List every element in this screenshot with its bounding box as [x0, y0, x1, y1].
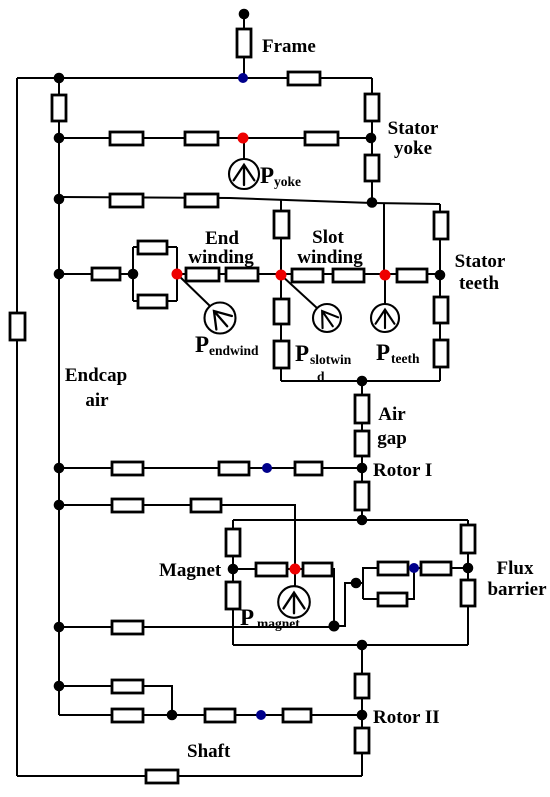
resistor: end-winding parallel lower: [138, 295, 167, 308]
node: stator yoke right: [366, 133, 377, 144]
resistor: rotor I line 2: [219, 462, 249, 475]
current source P_yoke: [229, 159, 259, 189]
wire: flux barrier branch vertical: [362, 567, 364, 599]
resistor: rotor I rail: [355, 482, 369, 510]
wire: P yoke stub: [243, 138, 245, 159]
svg-text:yoke: yoke: [274, 174, 301, 189]
node: stator teeth: [435, 270, 446, 281]
resistor: flux barrier right rail upper: [461, 525, 475, 553]
resistor: magnet left rail lower: [226, 582, 240, 609]
svg-text:yoke: yoke: [394, 138, 432, 159]
resistor: stator yoke line 2: [185, 132, 218, 145]
wire: rotor I horizontal line: [59, 467, 362, 469]
wire: stator yoke right rail: [371, 78, 373, 203]
resistor: frame-endcap (left inner rail): [52, 95, 66, 121]
svg-text:Air: Air: [378, 404, 406, 425]
wire: rotor II horizontal line: [59, 714, 362, 716]
resistor: shaft parallel upper: [112, 680, 143, 693]
node: frame-left rail junction: [54, 73, 65, 84]
wire: winding row main segment: [177, 273, 440, 275]
node: end winding (red): [172, 269, 183, 280]
node: rotor II: [357, 710, 368, 721]
wire: magnet box top line: [233, 519, 468, 521]
svg-text:P: P: [240, 605, 254, 630]
node: end winding left: [54, 269, 65, 280]
node: rotor I: [357, 463, 368, 474]
resistor: stator yoke rail lower: [365, 155, 379, 181]
wire: flux barrier right rail: [467, 520, 469, 645]
svg-text:winding: winding: [188, 247, 254, 268]
node: frame line (blue): [238, 73, 248, 83]
wire: air gap rail: [361, 381, 363, 520]
svg-text:winding: winding: [297, 247, 363, 268]
node: stator yoke mid (red): [238, 133, 249, 144]
wire: top frame horizontal line: [17, 77, 372, 79]
wire: P teeth stub: [384, 275, 386, 304]
node: rotor mid: [357, 640, 368, 651]
svg-text:P: P: [260, 163, 274, 188]
node: rotor top: [357, 515, 368, 526]
svg-text:teeth: teeth: [459, 273, 500, 294]
node: shaft parallel left: [54, 681, 65, 692]
resistor: stator teeth rail mid: [434, 297, 448, 323]
resistor: rotor I line 3: [295, 462, 322, 475]
wire: lower magnet horizontal line: [233, 644, 468, 646]
node: flux barrier left: [351, 578, 362, 589]
wire: left outer rail: [16, 78, 18, 776]
node: magnet-flux junction: [329, 621, 340, 632]
node: shaft parallel right: [167, 710, 178, 721]
node: rotor II line (blue): [256, 710, 266, 720]
svg-text:Flux: Flux: [497, 558, 534, 579]
svg-text:air: air: [85, 390, 109, 411]
wire: slot-box top horizontal line: [59, 197, 440, 204]
node: slot box top: [367, 197, 378, 208]
resistor: flux barrier right rail lower: [461, 580, 475, 606]
current source P_magnet: [278, 586, 310, 618]
wire: flux barrier left link: [334, 583, 363, 626]
node: slot winding left (red): [276, 270, 287, 281]
resistor: stator teeth rail lower: [434, 340, 448, 367]
resistor: flux barrier bottom branch: [378, 593, 407, 606]
wire: magnet row horizontal: [233, 569, 334, 626]
svg-text:Stator: Stator: [455, 251, 506, 272]
resistor: flux barrier top branch 2: [421, 562, 451, 575]
resistor: stator teeth rail upper: [434, 212, 448, 239]
node: rotor I line (blue): [262, 463, 272, 473]
svg-text:Slot: Slot: [312, 227, 344, 248]
node: endcap lower left: [54, 622, 65, 633]
svg-text:Rotor I: Rotor I: [373, 460, 432, 481]
svg-text:endwind: endwind: [209, 343, 259, 358]
node: endcap top left: [54, 194, 65, 205]
resistor: end winding link 1: [186, 268, 219, 281]
resistor: air gap lower: [355, 431, 369, 456]
svg-text:P: P: [295, 341, 309, 366]
resistor: shaft line: [146, 770, 178, 783]
wire: shaft parallel top branch: [59, 686, 172, 715]
wire: shaft bottom horizontal line: [17, 775, 362, 777]
wire: P slotwind diagonal lead: [281, 275, 317, 308]
resistor: end-winding parallel upper: [138, 241, 167, 254]
resistor: magnet row 2: [303, 563, 332, 576]
resistor: stator yoke line 3: [305, 132, 338, 145]
wire: endcap air horizontal line: [59, 626, 334, 628]
resistor: air gap upper: [355, 395, 369, 423]
resistor: shaft parallel lower: [112, 709, 143, 722]
resistor: slot winding link 1: [292, 269, 323, 282]
wire: frame pendant vertical: [243, 14, 245, 78]
resistor: slot winding link 2: [333, 269, 364, 282]
node: endcap mid left: [54, 500, 65, 511]
wire: slot box left rail: [280, 200, 282, 381]
resistor: stator yoke rail upper: [365, 94, 379, 121]
wire: magnet box left rail: [232, 520, 234, 645]
svg-text:magnet: magnet: [257, 616, 300, 631]
wire: left inner rail: [58, 78, 60, 715]
resistor: rotor II line 1: [205, 709, 235, 722]
resistor: magnet left rail upper: [226, 529, 240, 556]
node: slot winding right (red): [380, 270, 391, 281]
wire: second rotor line to magnet: [59, 505, 295, 569]
svg-text:P: P: [376, 340, 390, 365]
resistor: rotor II rail lower: [355, 728, 369, 753]
resistor: endcap-magnet line 1: [112, 499, 143, 512]
svg-text:Shaft: Shaft: [187, 741, 231, 762]
wire: slot box bottom line: [281, 380, 440, 382]
resistor: magnet row 1: [256, 563, 287, 576]
resistor: endcap line 2: [185, 194, 218, 207]
current source P_endwind: [205, 303, 236, 334]
wire: stator yoke horizontal line: [59, 137, 371, 139]
wire: flux barrier bottom branch: [363, 568, 414, 599]
wire: P magnet stub: [294, 569, 296, 587]
resistor: stator yoke line 1: [110, 132, 143, 145]
svg-text:End: End: [205, 228, 239, 249]
current source P_teeth: [371, 304, 399, 332]
resistor: slot box left rail lower: [274, 341, 289, 368]
resistor: rotor II rail upper: [355, 674, 369, 698]
node: stator yoke left: [54, 133, 65, 144]
wire: P endwind diagonal lead: [177, 274, 211, 307]
wire: end-winding row left segment: [59, 273, 133, 275]
svg-text:d: d: [317, 369, 325, 384]
wire: stator teeth right rail: [439, 204, 441, 381]
svg-text:Rotor II: Rotor II: [373, 707, 440, 728]
node: flux barrier (blue): [409, 563, 419, 573]
svg-text:barrier: barrier: [487, 579, 547, 600]
svg-text:slotwin: slotwin: [310, 352, 352, 367]
svg-text:Frame: Frame: [262, 36, 316, 57]
resistor: rotor II line 2: [283, 709, 311, 722]
node: end winding box left: [128, 269, 139, 280]
resistor: end winding link 2: [226, 268, 258, 281]
resistor: slot box left rail upper: [274, 211, 289, 238]
resistor: slot winding-stator teeth: [397, 269, 427, 282]
resistor: frame to ambient: [237, 29, 251, 57]
svg-text:teeth: teeth: [391, 351, 420, 366]
node: rotor I left: [54, 463, 65, 474]
resistor: endcap to end-winding: [92, 268, 120, 280]
svg-text:Stator: Stator: [388, 118, 439, 139]
node: flux barrier right: [463, 563, 474, 574]
wire: rotor II rail: [361, 645, 363, 776]
node: slot box bottom: [357, 376, 368, 387]
resistor: endcap line 1: [110, 194, 143, 207]
wire: vertical from top line to slot winding node: [383, 203, 385, 275]
node: magnet (red): [290, 564, 301, 575]
node: magnet left: [228, 564, 239, 575]
wire: end-winding parallel box: [133, 247, 177, 301]
current source P_slotwind: [313, 304, 341, 332]
resistor: endcap-magnet line 2: [191, 499, 221, 512]
resistor: slot box left rail mid: [274, 299, 289, 324]
resistor: flux barrier top branch 1: [378, 562, 408, 575]
svg-text:Endcap: Endcap: [65, 365, 127, 386]
resistor: frame-stator yoke (top line): [288, 72, 320, 85]
resistor: rotor I line 1: [112, 462, 143, 475]
svg-text:P: P: [195, 332, 209, 357]
svg-text:Magnet: Magnet: [159, 560, 222, 581]
node: frame top terminal: [239, 9, 250, 20]
svg-text:gap: gap: [377, 428, 407, 449]
resistor: left outer rail (endcap): [10, 313, 25, 340]
wire: flux barrier top branch: [363, 567, 468, 569]
resistor: endcap line lower: [112, 621, 143, 634]
